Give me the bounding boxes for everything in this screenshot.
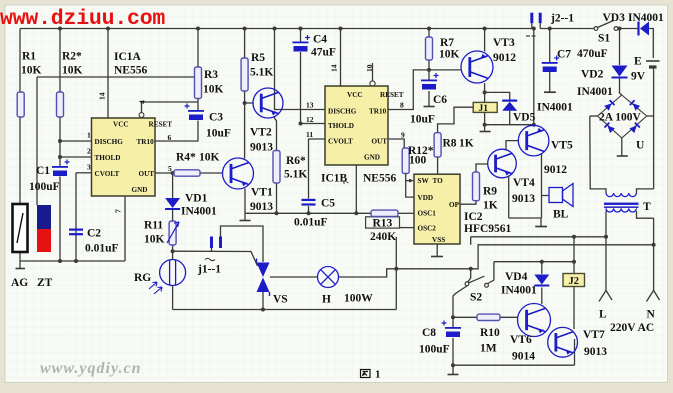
transistor VT5 9012 [518, 125, 549, 156]
svg-text:C2: C2 [87, 228, 101, 240]
wire VT7 emitter to rail [574, 339, 576, 365]
electrode ZT [37, 205, 51, 229]
svg-text:OSC1: OSC1 [418, 209, 437, 217]
svg-text:RESET: RESET [380, 91, 404, 99]
svg-text:C1: C1 [36, 165, 50, 177]
svg-text:10: 10 [365, 64, 374, 72]
wire C8 node to R10 [453, 316, 477, 318]
wire VT4 emitter down [508, 177, 510, 219]
wire VD5 top loop [485, 92, 510, 99]
photoresistor RG [160, 260, 186, 286]
wire J2 to VT7 [573, 287, 575, 330]
svg-text:R3: R3 [204, 69, 218, 81]
wire C2 column [75, 173, 77, 261]
speaker BL [549, 188, 563, 203]
ground bar C6 [424, 106, 435, 108]
svg-text:9013: 9013 [250, 201, 273, 213]
ground bar VT1 [240, 220, 251, 222]
transistor VT2 9013 [253, 88, 283, 118]
ground bar bridge [617, 155, 628, 157]
junction (263,309.5) [261, 308, 265, 312]
svg-text:VCC: VCC [347, 91, 363, 99]
svg-text:R7: R7 [440, 37, 454, 49]
svg-text:R10: R10 [480, 327, 500, 339]
wire bridge left link [590, 115, 598, 117]
wire J1 bottom [484, 112, 486, 131]
svg-text:NE556: NE556 [114, 65, 147, 77]
ground stub C8 rail [452, 365, 454, 374]
L terminal fork a [599, 290, 606, 301]
junction (619.5,28.5) [618, 27, 622, 31]
junction (274.5,28.5) [273, 27, 277, 31]
wire R8 to IC2 TO [437, 157, 439, 174]
svg-text:OSC2: OSC2 [418, 225, 437, 233]
svg-text:OP: OP [449, 201, 460, 209]
wire VD4 to VT6 [541, 288, 543, 305]
wire rail to VT5 [533, 29, 535, 126]
svg-text:9012: 9012 [544, 164, 567, 176]
svg-text:8: 8 [400, 100, 404, 109]
svg-text:100: 100 [409, 155, 427, 167]
svg-text:IC2: IC2 [464, 211, 483, 223]
junction (276.5,213.3) [275, 211, 279, 215]
wire L feed [471, 236, 606, 238]
wire L feed drop [470, 237, 472, 245]
svg-text:DISCHG: DISCHG [95, 138, 124, 146]
junction (60,28.5) [58, 27, 62, 31]
svg-text:R6*: R6* [286, 155, 306, 167]
svg-text:VD2: VD2 [581, 69, 604, 81]
svg-text:R9: R9 [483, 186, 497, 198]
svg-text:10K: 10K [21, 65, 42, 77]
junction (574,261.7) [572, 260, 576, 264]
svg-text:10uF: 10uF [206, 128, 231, 140]
wire VS to lamp H [270, 276, 318, 278]
svg-text:TO: TO [433, 177, 444, 185]
svg-text:N: N [647, 309, 656, 321]
svg-text:DISCHG: DISCHG [328, 108, 357, 116]
IC U1B NE556 timer half B [325, 86, 388, 165]
svg-text:47uF: 47uF [311, 47, 336, 59]
svg-text:j2--1: j2--1 [550, 13, 574, 25]
svg-text:C5: C5 [321, 198, 335, 210]
diode VD2 IN4001 [612, 66, 628, 77]
junction (541.8,261.7) [540, 260, 544, 264]
wire IC1B pin7 to timing node [355, 165, 357, 213]
junction (60,141) [58, 139, 62, 143]
caption fig 1 [361, 370, 371, 378]
wire j1 left pin down [211, 248, 213, 251]
wire R1 to AG [19, 117, 21, 204]
svg-text:CVOLT: CVOLT [328, 138, 353, 146]
wire VT1 collector to VT2 base [245, 102, 254, 104]
svg-text:IC1B: IC1B [321, 173, 348, 185]
svg-text:SW: SW [418, 177, 430, 185]
wire R9 to VT4 base [476, 164, 488, 172]
wire down to C8 [452, 317, 454, 327]
switch S2 [465, 282, 469, 286]
svg-text:100W: 100W [344, 293, 373, 305]
svg-text:10K: 10K [199, 152, 220, 164]
svg-text:9013: 9013 [250, 142, 273, 154]
svg-text:0.01uF: 0.01uF [294, 216, 328, 228]
svg-text:1K: 1K [483, 200, 498, 212]
svg-text:www.dziuu.com: www.dziuu.com [0, 7, 165, 31]
svg-text:RG: RG [134, 272, 151, 284]
svg-text:9012: 9012 [493, 52, 516, 64]
svg-text:OUT: OUT [372, 138, 388, 146]
ground bar bottom [448, 374, 459, 376]
junction (244.6,28.5) [243, 27, 247, 31]
capacitor C7 470uF [542, 62, 558, 64]
wire R13 label box to IC2 OSC2 [400, 227, 415, 229]
svg-text:C3: C3 [209, 112, 223, 124]
capacitor C3 10uF [188, 110, 204, 112]
capacitor C6 10uF [421, 80, 437, 82]
wire C5 to IC1B pin11 [309, 139, 326, 199]
capacitor C8 100uF [445, 327, 461, 329]
svg-text:100uF: 100uF [29, 181, 60, 193]
resistor R8 [434, 133, 441, 157]
wire C5 bottom [308, 206, 310, 213]
wire rail to R3 [197, 29, 199, 68]
junction (60,261) [58, 259, 62, 263]
wire node ZT to R3 column [37, 76, 194, 78]
svg-text:E: E [634, 56, 642, 68]
resistor R6 [273, 151, 280, 184]
svg-text:RESET: RESET [149, 121, 173, 129]
svg-text:2: 2 [87, 147, 91, 156]
ground rail left section [20, 260, 125, 262]
svg-text:9013: 9013 [512, 193, 535, 205]
junction (453,365.2) [451, 363, 455, 367]
svg-text:1: 1 [375, 369, 381, 381]
wire R6 to timing node [276, 183, 278, 213]
svg-text:14: 14 [330, 64, 339, 72]
diode VD4 IN4001 [534, 275, 549, 285]
stub ground VT1 emitter [244, 213, 246, 220]
svg-text:R11: R11 [144, 220, 163, 232]
wire rail to C7 [549, 29, 551, 63]
svg-text:OUT: OUT [139, 170, 155, 178]
wire down to S2 right [488, 262, 494, 284]
wire S2 right to J2 line [494, 261, 574, 263]
wire VT2 emitter to R6 [274, 117, 277, 151]
wire VT4 collector to VT5 base [506, 141, 518, 150]
svg-text:J2: J2 [569, 276, 580, 287]
svg-text:R8: R8 [443, 138, 457, 150]
junction (484.6,92.4) [483, 90, 487, 94]
transistor VT4 9013 [488, 149, 517, 178]
junction (60,157) [58, 155, 62, 159]
svg-text:VD4: VD4 [505, 271, 528, 283]
resistor R4 [174, 170, 200, 176]
svg-text:3: 3 [87, 163, 91, 172]
bottom rail right section [453, 364, 575, 366]
wire VT5 collector down [541, 153, 543, 218]
junction (340.5,28.5) [339, 27, 343, 31]
wire rail to R7 [428, 29, 430, 38]
wire rail to IC1B pin13 [275, 29, 326, 110]
svg-text:9013: 9013 [584, 346, 607, 358]
svg-text:IC1A: IC1A [114, 51, 142, 63]
wire rail to S1 [540, 28, 595, 30]
svg-text:VT7: VT7 [583, 329, 605, 341]
wire IC1A pin14 from rail [107, 29, 109, 119]
svg-text:7: 7 [114, 209, 123, 213]
svg-text:T: T [643, 201, 651, 213]
svg-text:U: U [636, 140, 645, 152]
ground stub mid [540, 218, 542, 226]
wire IC1A pin4 reset stub [142, 102, 199, 113]
svg-text:TR10: TR10 [137, 138, 155, 146]
wire R7 to C6 node [428, 60, 430, 80]
wire IC2 OP to R9 [460, 201, 476, 205]
svg-text:10K: 10K [62, 65, 83, 77]
junction (549.7,28.5) [548, 27, 552, 31]
wire J2 contact upper [573, 237, 575, 274]
svg-text:IN4001: IN4001 [628, 12, 664, 24]
svg-text:THOLD: THOLD [328, 122, 354, 130]
wire IC1A pin2 to C1 node [60, 156, 92, 158]
wire rail to R2 [59, 29, 61, 93]
svg-text:L: L [599, 309, 607, 321]
svg-text:VT2: VT2 [250, 127, 272, 139]
junction (300.5,28.5) [299, 27, 303, 31]
wire secondary right [637, 211, 654, 218]
svg-text:10uF: 10uF [410, 114, 435, 126]
resistor R3 [195, 67, 202, 99]
wire transformer right top [637, 189, 654, 193]
wire R5 to VT1 collector [244, 91, 246, 159]
transformer T [606, 193, 636, 197]
svg-text:2A 100V: 2A 100V [599, 112, 642, 124]
wire rail to R5 [244, 29, 246, 59]
svg-text:4: 4 [138, 100, 147, 104]
terminal bar AG [16, 268, 26, 270]
junction (453,317.3) [451, 315, 455, 319]
svg-text:VCC: VCC [113, 121, 129, 129]
wire RG to bottom rail [172, 286, 174, 310]
svg-text:R2*: R2* [62, 51, 82, 63]
svg-text:J1: J1 [479, 104, 489, 114]
diode VD5 IN4001 [502, 100, 517, 102]
resistor R7 [426, 37, 433, 60]
svg-text:C6: C6 [433, 94, 447, 106]
svg-text:C4: C4 [313, 34, 327, 46]
wire j2 right pin [539, 23, 541, 29]
svg-text:14: 14 [98, 92, 107, 100]
connector j1--1 [210, 237, 213, 249]
wire down to ZT [36, 77, 38, 205]
wire IC1A pin1 to C1 node [60, 140, 92, 142]
wire C7 down to terminal [549, 72, 551, 92]
wire VD5 bottom loop [485, 111, 510, 125]
wire lamp H right [339, 269, 397, 277]
svg-text:R5: R5 [251, 52, 265, 64]
svg-text:VD1: VD1 [185, 193, 208, 205]
wire VD2 to bridge [620, 79, 622, 96]
terminal bar C7 [544, 91, 556, 93]
svg-text:S1: S1 [598, 33, 610, 45]
relay contact J2 [563, 274, 585, 287]
junction (484.6,124.7) [483, 123, 487, 127]
junction (606,236.8) [604, 235, 608, 239]
capacitor C5 0.01uF [302, 199, 316, 201]
svg-text:VT1: VT1 [251, 187, 273, 199]
wire S2 left to C8 node [453, 286, 467, 317]
svg-text:VSS: VSS [432, 236, 445, 244]
connector tick a [526, 35, 530, 37]
wire rail to VT3 emitter [484, 29, 486, 52]
junction (653.6,244.8) [652, 243, 656, 247]
svg-text:12: 12 [306, 115, 314, 124]
svg-text:6: 6 [168, 133, 172, 142]
wire N line [653, 218, 655, 290]
junction (396.3,268.8) [394, 267, 398, 271]
svg-text:VS: VS [273, 294, 288, 306]
wire VS cathode to bottom rail [262, 292, 264, 310]
svg-text:GND: GND [132, 186, 148, 194]
diode VD1 IN4001 [165, 198, 180, 208]
svg-text:VD3: VD3 [603, 12, 626, 24]
wire bridge right link [647, 115, 654, 117]
resistor R10 [477, 314, 500, 320]
resistor R11 [169, 221, 176, 245]
label box R13 [366, 217, 400, 228]
wire R4 to VT1 base [200, 172, 223, 174]
N terminal fork b [654, 290, 660, 300]
svg-text:100uF: 100uF [419, 344, 450, 356]
svg-text:R4*: R4* [176, 152, 196, 164]
wire R13 to IC2 OSC1 [398, 212, 414, 214]
svg-text:5: 5 [168, 164, 172, 173]
N terminal fork a [647, 290, 654, 301]
resistor R5 [241, 58, 248, 91]
L terminal fork b [606, 290, 612, 300]
svg-text:R13: R13 [373, 217, 393, 229]
transistor VT3 9012 [461, 51, 493, 83]
wire to IC2 VDD [406, 181, 414, 198]
svg-text:H: H [322, 294, 331, 306]
svg-text:S2: S2 [470, 292, 482, 304]
junction (429,28.5) [427, 27, 431, 31]
wire rail to IC1B pin14 [340, 29, 342, 87]
junction (356.3,213.3) [354, 211, 358, 215]
wire left rail to R1 [19, 29, 21, 93]
wire R11 node to VS gate [173, 251, 258, 266]
svg-text:5.1K: 5.1K [250, 67, 273, 79]
wire R8 top to J1 [438, 107, 473, 133]
svg-text:9014: 9014 [512, 351, 535, 363]
wire lamp loop to S2 left [468, 269, 471, 282]
svg-text:VT6: VT6 [510, 334, 532, 346]
svg-text:VT5: VT5 [551, 140, 573, 152]
capacitor C1 100uF [52, 166, 68, 168]
svg-text:THOLD: THOLD [95, 154, 121, 162]
wire rail to C4 [300, 29, 302, 42]
transistor VT7 9013 [548, 327, 578, 357]
wire IC1B pin8 to VT3 base [388, 70, 461, 110]
IC2 VSS ground stub [436, 244, 438, 256]
svg-text:j1--1: j1--1 [197, 264, 221, 276]
relay coil J1 [473, 102, 497, 112]
wire IC1A pin5 OUT to R4 [155, 172, 174, 174]
resistor R12 [402, 148, 409, 174]
junction (198,28.5) [196, 27, 200, 31]
resistor R13 [371, 210, 398, 216]
bridge rectifier U 2A100V [598, 95, 647, 138]
svg-text:13: 13 [306, 101, 314, 110]
wire OUT node to VD1 [172, 173, 174, 198]
ground bar IC2 [431, 256, 443, 258]
wire VT3 collector to J1 [484, 83, 486, 102]
svg-text:VT4: VT4 [513, 177, 535, 189]
wire top supply rail [20, 28, 533, 30]
junction (574,236.8) [572, 235, 576, 239]
svg-text:9: 9 [401, 131, 405, 140]
wire emitter bus [509, 217, 542, 219]
wire C8 to bottom rail [452, 338, 454, 365]
wire transformer secondary to L [605, 211, 607, 291]
wire R10 to VT6 base [500, 316, 518, 318]
transistor VT1 9013 [223, 158, 254, 189]
transistor VT6 9014 [518, 304, 551, 337]
wire j2 left pin [531, 23, 533, 29]
svg-text:VT3: VT3 [493, 37, 515, 49]
junction (533.8,124.7) [532, 123, 536, 127]
wire riser lamp node [395, 237, 397, 310]
junction (533.8,28.5) [532, 27, 536, 31]
svg-text:470uF: 470uF [577, 48, 608, 60]
svg-text:NE556: NE556 [363, 173, 396, 185]
wire j1 right pin to VS anode [221, 226, 264, 262]
svg-text:BL: BL [553, 209, 569, 221]
svg-text:10K: 10K [144, 234, 165, 246]
wire C6 bottom stub [428, 91, 430, 106]
svg-text:VDD: VDD [418, 194, 434, 202]
wire VD5 node to VT5 [510, 124, 534, 126]
svg-text:TR10: TR10 [369, 108, 387, 116]
wire R11 to RG [172, 245, 174, 260]
svg-text:1K: 1K [459, 138, 474, 150]
svg-text:ZT: ZT [37, 277, 53, 289]
svg-text:1: 1 [87, 131, 91, 140]
resistor R9 [473, 172, 480, 201]
connector tick b [532, 35, 536, 37]
wire S1 to VD3 [618, 28, 639, 30]
wire to speaker BL [542, 195, 550, 197]
svg-text:www.yqdiy.cn: www.yqdiy.cn [40, 360, 141, 377]
svg-text:11: 11 [306, 130, 313, 139]
junction (76,261) [74, 259, 78, 263]
svg-text:10K: 10K [203, 84, 224, 96]
wire C4 to IC1B pin12 [301, 52, 326, 124]
wire timing node R13 [245, 212, 376, 214]
wire R2 to C1 [59, 117, 61, 166]
lamp H 100W [318, 267, 339, 288]
svg-text:HFC9561: HFC9561 [464, 223, 512, 235]
svg-text:VD5: VD5 [513, 112, 536, 124]
bottom rail mid section [173, 309, 397, 311]
wire VD3 to battery E [648, 29, 653, 59]
IC U1A NE556 timer half A [92, 118, 156, 196]
wire AG terminal [19, 252, 21, 269]
svg-text:10K: 10K [439, 49, 460, 61]
svg-text:1M: 1M [480, 343, 497, 355]
wire rail to VD2 [619, 29, 621, 66]
svg-text:IN4001: IN4001 [537, 102, 573, 114]
